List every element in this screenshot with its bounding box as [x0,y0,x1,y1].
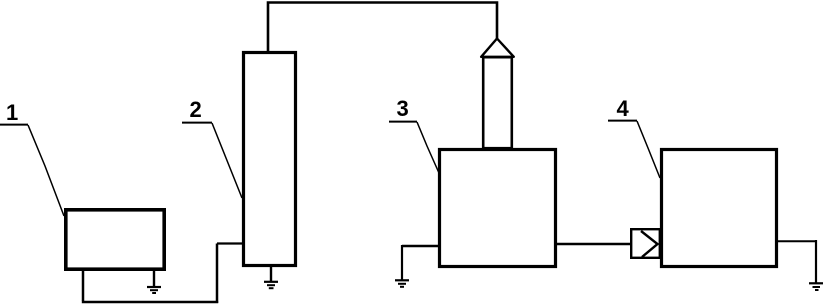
block 4 [662,150,777,267]
leader line 3 [417,122,439,173]
wire: block 3 left to ground [402,245,439,247]
svg-text:1: 1 [6,100,18,125]
ground: under block 2 [264,266,278,289]
wire: top interconnect from block 2 top to chimney apex [268,3,497,53]
leader line 1 [28,125,64,216]
block 3 [440,150,556,267]
svg-text:2: 2 [190,97,202,122]
svg-text:3: 3 [397,96,409,121]
chevron mark [641,231,658,257]
leader line 4 [637,121,660,178]
svg-text:4: 4 [617,96,630,121]
ground: left of block 3 [395,280,409,287]
wire: block 3 to chevron box [557,243,631,246]
chimney tube on block 3 [483,57,512,148]
wire: block 4 right to ground [778,240,816,242]
chevron box (draft symbol) [631,229,660,258]
wire: riser up to block 2 feed [216,244,219,304]
wire: into block 2 left side [217,242,243,244]
wire: bottom horizontal run [82,301,218,304]
leader line 2 [212,123,242,198]
ground: under block 1 [147,270,161,294]
block 2 (column) [244,53,296,266]
wire: block1 bottom-left down [82,270,85,302]
block 1 [66,210,164,269]
ground: right of block 4 [809,283,823,290]
chimney cap (cone) [481,39,514,57]
